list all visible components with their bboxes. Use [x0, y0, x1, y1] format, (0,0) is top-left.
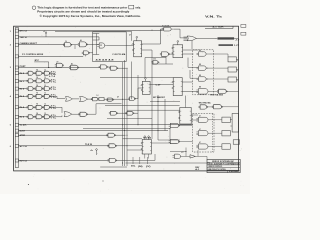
svg-text:XEROX CORP M.V.: XEROX CORP M.V. [208, 166, 223, 168]
wire bot right b [191, 114, 198, 116]
gate rx2a [27, 87, 35, 91]
ff input pin [132, 44, 133, 45]
wire into D1c riser [189, 70, 191, 78]
wire hbus low [83, 128, 170, 130]
connector pin box row 2 [15, 35, 18, 38]
svg-text:(M): (M) [138, 166, 143, 168]
or gate O2 [80, 97, 88, 102]
flip-flop FF2 [142, 81, 150, 94]
junction [122, 163, 123, 164]
connector pin box row 13 [15, 129, 18, 132]
gate rx2b [35, 87, 44, 91]
wire rx row 3 lead [19, 95, 28, 97]
gate O4b [106, 98, 114, 101]
svg-text:C.2T: C.2T [156, 85, 161, 87]
connector box C2a [222, 117, 230, 122]
gate M1 [169, 123, 180, 127]
gate rx4a [27, 105, 35, 109]
wire port g-g [107, 66, 110, 68]
wire vmid b [144, 58, 146, 78]
wire TDR top right [205, 27, 233, 29]
wire T3 out [169, 53, 174, 55]
wire rx5 ab [34, 116, 36, 118]
wire RDY row [19, 160, 110, 162]
svg-text:12: 12 [44, 104, 46, 106]
wire top bus [55, 30, 132, 32]
dashed region D2 [193, 114, 214, 153]
wire rx row 2 lead [19, 88, 28, 90]
wire T2 drop [191, 41, 193, 49]
wire R1 in b [93, 39, 100, 41]
wire O1-O2 [72, 98, 79, 100]
junction [170, 128, 171, 129]
title block outline [207, 159, 240, 172]
pullup FF3 [177, 41, 179, 45]
gate O9 [125, 111, 134, 115]
wire top bus riser [131, 31, 133, 40]
connector box C1b [228, 67, 236, 72]
connector box C1c [228, 77, 236, 82]
wire vright 2 [157, 95, 159, 140]
wire R1 in a [93, 33, 100, 35]
svg-text:BUSY: BUSY [20, 131, 26, 133]
svg-text:REV: REV [195, 167, 199, 169]
gate A3 p1 mode [82, 51, 90, 55]
connector pin box row 9 [15, 95, 18, 98]
wire C1c out [236, 79, 238, 81]
wire vbus 2 [124, 60, 126, 166]
wire C1a out [236, 58, 238, 60]
wire D1b out [206, 67, 228, 69]
connector box C1a [228, 57, 236, 62]
junction [124, 130, 125, 131]
dark signal strip [219, 44, 234, 46]
wire D1c out [206, 78, 228, 80]
wire rx row 0 lead [19, 72, 28, 74]
wire vbus 1 [122, 62, 124, 166]
driver gate D1a [197, 52, 209, 56]
wire E1 out [226, 90, 238, 92]
gate O7 [78, 112, 87, 116]
svg-text:BTC 14: BTC 14 [20, 30, 28, 33]
wire P2 out [195, 155, 207, 157]
svg-text:12: 12 [44, 77, 46, 79]
ff input pin [141, 149, 142, 150]
wire vright 3 [169, 129, 171, 140]
wire FF5 top [185, 103, 187, 108]
driver gate D1c [197, 77, 209, 81]
wire O6 out [72, 113, 80, 115]
wire bot right a [158, 139, 180, 141]
wire mid right h2 [145, 57, 166, 59]
wire O7 out [87, 113, 96, 115]
svg-text:L.T 2: L.T 2 [49, 73, 55, 75]
ff input pin [179, 112, 180, 113]
wire vright 1 [151, 99, 153, 139]
wire rx1 ab [34, 80, 36, 82]
wire bar out [234, 37, 238, 39]
gate A4 port [55, 63, 64, 67]
connector box C2c [222, 144, 230, 149]
wire A1-A2 [71, 44, 79, 46]
svg-text:This logic diagram is furnishe: This logic diagram is furnished for test… [37, 6, 127, 10]
gate E2 [199, 105, 208, 109]
wire rx5 out [50, 116, 62, 118]
wire FF1 out q [142, 43, 161, 45]
pullup FF2 [145, 78, 147, 82]
connector column C3 [232, 114, 239, 133]
svg-text:1 T.L: 1 T.L [51, 89, 57, 91]
title block row line 3 [207, 167, 240, 169]
wire T2 stub 2 [184, 38, 189, 40]
wire BTC row [19, 30, 163, 32]
or gate T2 [187, 36, 197, 41]
wire T2 stub 3 [184, 40, 188, 42]
wire F1 out [107, 45, 134, 47]
svg-text:D/L: D/L [131, 166, 136, 168]
svg-text:1 T.L: 1 T.L [51, 108, 57, 110]
svg-text:12: 12 [44, 113, 46, 115]
pullup FF1 [136, 36, 138, 40]
svg-text:XEROX SYSTEMS INC: XEROX SYSTEMS INC [212, 161, 235, 163]
junction above title [186, 151, 187, 152]
connector pin box row 11 [15, 115, 18, 118]
svg-text:12: 12 [44, 93, 46, 95]
wire rx2 bc [43, 88, 45, 90]
wire BUSY row [19, 130, 169, 132]
wire rx3 out [50, 95, 57, 97]
svg-text:only.: only. [135, 6, 141, 10]
wire FF1 q up [160, 29, 162, 44]
wire into FF2 [138, 87, 142, 89]
junction [122, 99, 123, 100]
junction PORT [48, 67, 49, 68]
wire hbus mid2 [105, 104, 180, 106]
gate M2 [169, 140, 180, 144]
wire vmid d [185, 96, 187, 103]
gate A5 port [69, 65, 79, 70]
wire FF4 out [182, 90, 198, 92]
wire above title a [185, 148, 187, 157]
junction [127, 145, 128, 146]
wire T2 out [197, 37, 218, 39]
gate A7 port [109, 66, 118, 70]
wire M1 out [179, 125, 193, 127]
title block divider [231, 162, 233, 165]
gate rx1b [35, 79, 44, 83]
wire title lead [206, 156, 208, 159]
gate B3 rdy [108, 158, 117, 162]
connector pin box row 6 [15, 72, 18, 75]
pullup FF6a [144, 136, 146, 140]
wire T1 corner [179, 29, 181, 38]
svg-text:1 T.L: 1 T.L [51, 97, 57, 99]
connector pin box row 3 [15, 43, 18, 46]
wire above title b [197, 150, 199, 156]
gate rx0c [43, 71, 51, 75]
wire mid right h3 [150, 101, 180, 103]
wire FF3 in [165, 57, 167, 64]
wire FF6 outd [144, 154, 146, 159]
gate mid small [151, 61, 159, 65]
wire above title c [170, 151, 186, 153]
driver gate D2b [196, 131, 210, 136]
gate P2 arrow [190, 155, 195, 158]
wire hbus mid [100, 77, 173, 79]
wire stub V [147, 157, 149, 164]
wire hbus bottom [126, 162, 211, 164]
wire D2b out [210, 132, 222, 134]
wire vmid a [131, 62, 133, 100]
wire FF6 right [151, 142, 170, 144]
gate rx3a [27, 94, 35, 98]
junction [122, 124, 123, 125]
connector pin box row 15 [15, 144, 18, 147]
wire mid right h [152, 63, 173, 65]
wire O9 out [134, 112, 138, 114]
junction [158, 130, 159, 131]
driver gate D1d [196, 89, 210, 95]
gate rx3c [43, 94, 51, 98]
connector pin box row 16 [15, 159, 18, 162]
ff input pin [141, 90, 142, 91]
left connector strip J1 [15, 28, 18, 168]
or gate O1 [65, 97, 72, 102]
wire rx5 rise [61, 116, 63, 117]
wire T2 in [180, 37, 187, 39]
svg-text:APER: APER [20, 134, 26, 137]
ff input pin [141, 143, 142, 144]
wire A3 out [89, 52, 93, 54]
wire FF4 out2 [182, 81, 192, 83]
ff input pin [172, 48, 173, 49]
wire C3 tick2 [230, 125, 232, 127]
junction [48, 67, 49, 68]
pullup TP1 [96, 149, 98, 155]
svg-text:1.2T: 1.2T [234, 45, 239, 47]
dashed divider D2 [211, 114, 213, 153]
svg-text:12: 12 [44, 85, 46, 87]
wire rx3 ab [34, 95, 36, 97]
wire APER row [19, 134, 108, 136]
svg-text:1.2: 1.2 [97, 95, 99, 97]
connector pin box row 4 [15, 55, 18, 58]
svg-text:+5: +5 [43, 31, 45, 33]
wire vbus 4 [137, 75, 139, 125]
gate rx5c [43, 115, 51, 119]
wire hbus mid3 [127, 109, 180, 111]
svg-text:TWR 14: TWR 14 [20, 36, 28, 39]
wire CHANNEL SELECT [19, 44, 65, 46]
gate A2 channel select [78, 42, 88, 47]
title block row line 4 [207, 169, 240, 171]
wire rx1 bc [43, 80, 45, 82]
svg-text:CL AVL: CL AVL [20, 124, 28, 127]
connector pin box row 10 [15, 106, 18, 109]
junction [127, 68, 128, 69]
gate P1 [173, 154, 183, 159]
svg-text:P.1 CONTROL MODE: P.1 CONTROL MODE [22, 54, 44, 56]
title block row line 1 [207, 161, 240, 163]
wire ACTIVE row [19, 145, 109, 147]
driver gate D2c [196, 144, 210, 149]
gate rx0b [35, 71, 44, 75]
dashed region D1 [193, 50, 214, 95]
wire rx4 bc [43, 106, 45, 108]
wire R1 inner v [95, 34, 97, 55]
wire hbus low2 [123, 138, 143, 140]
wire B3 out [116, 159, 155, 161]
zone tab right second [241, 32, 246, 35]
disclaimer callout bracket [129, 5, 134, 9]
wire B1 out [115, 134, 126, 136]
wire C1b out [236, 69, 238, 71]
wire bot right c [191, 119, 198, 121]
wire into D1c [190, 77, 198, 79]
connector pin box row 8 [15, 87, 18, 90]
wire B3 riser [154, 154, 156, 160]
gate B1 aper [106, 133, 115, 137]
wire FF3 out b [183, 53, 194, 55]
gate A6 port [99, 65, 108, 69]
signal bar label [218, 37, 235, 39]
wire rx0 ab [34, 72, 36, 74]
wire PORT row [19, 67, 101, 69]
zone tab right top [241, 25, 246, 28]
wire FF6 outd2 [148, 154, 150, 159]
wire FF1 out q2 [142, 49, 152, 51]
wire TWR drop [98, 37, 100, 40]
pullup FF6b [148, 136, 150, 140]
wire A2-F1 [87, 43, 99, 45]
ff input pin [132, 50, 133, 51]
wire O7 to right [96, 103, 122, 105]
wire hbus 150 [127, 149, 142, 151]
gate F1 in R1 [97, 43, 107, 48]
wire O7 riser [95, 104, 97, 114]
driver gate D1b [197, 66, 209, 70]
flip-flop FF1 [134, 41, 142, 57]
flip-flop FF5 [180, 108, 191, 125]
wire O8 out [117, 112, 127, 114]
wire rx4 out [50, 106, 62, 108]
svg-text:12: 12 [44, 70, 46, 72]
connector pin box row 1 [15, 29, 18, 32]
svg-text:C.0.5: C.0.5 [153, 59, 156, 61]
wire FF2 out [150, 84, 173, 86]
title block row line 2 [207, 164, 240, 166]
wire vmid c [164, 99, 166, 131]
wire rx row 4 lead [19, 106, 28, 108]
frame border [14, 26, 239, 171]
wire T1 out [173, 28, 180, 30]
connector pin box row 14 [15, 134, 18, 137]
speck 1 [28, 184, 29, 185]
junction [138, 124, 139, 125]
junction [127, 135, 128, 136]
svg-text:RDY 14: RDY 14 [20, 160, 28, 163]
junction mid right [158, 101, 159, 102]
wire stub M [139, 157, 141, 164]
svg-text:1 T.L: 1 T.L [51, 117, 57, 119]
wire ch sel branch [74, 45, 76, 49]
gate E3 [212, 105, 223, 109]
ff input pin [179, 118, 180, 119]
right tab box [233, 140, 239, 144]
pullup on TWR wire [45, 32, 47, 37]
wire O5 riser [137, 88, 139, 99]
svg-text:F1: F1 [100, 45, 102, 47]
gate rx4b [35, 105, 44, 109]
region box R1 [93, 32, 127, 62]
wire rx row 5 lead [19, 116, 28, 118]
wire hbus bottom2 [100, 166, 127, 168]
box O4 [99, 98, 104, 101]
svg-text:F7: F7 [57, 61, 59, 63]
wire TWR row [19, 36, 100, 38]
svg-text:ACT 14: ACT 14 [20, 145, 28, 148]
wire O5 out [135, 98, 138, 100]
gate O8 [109, 111, 118, 115]
gate T3 [160, 52, 170, 56]
gate rx5b [35, 115, 44, 119]
wire port out [117, 67, 126, 69]
wire h118 [107, 118, 152, 120]
wire O4 out [104, 98, 129, 100]
wire D1a corner [227, 54, 229, 57]
wire T2 stub 1 [184, 36, 188, 38]
wire rx3 to or [57, 98, 65, 100]
svg-text:Proprietary circuits are shown: Proprietary circuits are shown and shoul… [37, 9, 130, 13]
wire E2 out [207, 106, 214, 108]
wire CLAVL row [19, 124, 193, 126]
svg-text:TLE W: TLE W [85, 144, 93, 146]
gate rx1c [43, 79, 51, 83]
connector box C2b [222, 131, 230, 136]
connector pin box row 12 [15, 123, 18, 126]
wire rx3 bc [43, 95, 45, 97]
svg-text:C 2-13: C 2-13 [162, 25, 169, 27]
wire D1d out [210, 90, 218, 92]
gate O3 [91, 97, 99, 101]
wire D2a out [210, 119, 222, 121]
gate rx5a [27, 115, 35, 119]
svg-text:V.N. Ts: V.N. Ts [205, 15, 223, 19]
wire TDR stub [232, 26, 234, 28]
wire rx4 ab [34, 106, 36, 108]
gate E1 [217, 89, 227, 93]
svg-text:1 T.L: 1 T.L [51, 82, 57, 84]
driver gate D2a [196, 117, 210, 122]
wire B'C stub [34, 61, 49, 63]
gate T1 top right [162, 27, 173, 31]
gate A1 channel select [63, 43, 72, 47]
gate rx4c [43, 105, 51, 109]
ff input pin [172, 88, 173, 89]
wire R1 in c [93, 54, 100, 56]
wire C3 ticks [230, 119, 232, 121]
gate rx1a [27, 79, 35, 83]
wire vbus 3 [126, 68, 128, 166]
wire ff1 down [151, 50, 153, 99]
note reference marker circle [32, 6, 36, 10]
wire FF3 out [183, 49, 199, 51]
flip-flop FF3 [173, 45, 183, 58]
connector pin box row 7 [15, 79, 18, 82]
wire FF1 q to T1 [161, 28, 163, 30]
gate rx2c [43, 87, 51, 91]
wire P1 out [183, 155, 190, 157]
